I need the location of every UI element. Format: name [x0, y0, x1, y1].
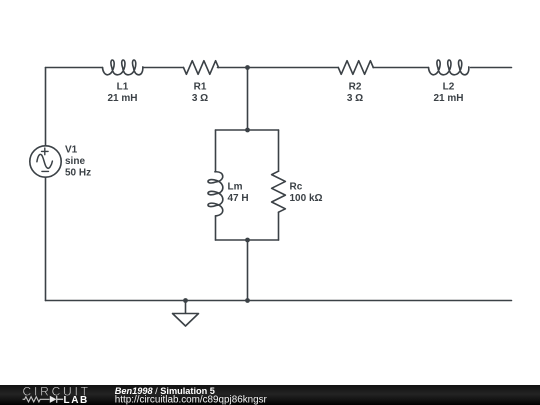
- svg-text:47 H: 47 H: [228, 193, 249, 204]
- svg-text:V1: V1: [65, 144, 78, 155]
- wire left vertical lower (from V1): [45, 177, 47, 300]
- wire left branch upper lead: [215, 130, 217, 171]
- wire right branch upper lead: [278, 130, 280, 171]
- node dot at ground symbol: [183, 298, 188, 303]
- wire parallel box bottom bar: [216, 239, 279, 241]
- svg-text:3 Ω: 3 Ω: [347, 93, 363, 104]
- resistor R1: [184, 61, 219, 75]
- wire between L1 and R1: [144, 67, 184, 69]
- wire box bottom to ground rail: [247, 240, 249, 301]
- svg-text:100 kΩ: 100 kΩ: [290, 193, 323, 204]
- node dot at ground rail junction: [245, 298, 250, 303]
- svg-text:Lm: Lm: [228, 182, 243, 193]
- wire top-left segment: [46, 67, 103, 69]
- logo resistor squiggle: [23, 397, 50, 402]
- wire left branch lower lead: [215, 216, 217, 240]
- resistor Rc: [272, 171, 286, 212]
- svg-text:sine: sine: [65, 156, 85, 167]
- wire left vertical upper (to V1): [45, 68, 47, 146]
- ground symbol: [173, 301, 199, 327]
- wire right branch lower lead: [278, 212, 280, 240]
- svg-text:R1: R1: [194, 82, 207, 93]
- node dot at box top: [245, 128, 250, 133]
- node dot at box bottom: [245, 238, 250, 243]
- svg-text:21 mH: 21 mH: [433, 93, 463, 104]
- V1 sine wave: [37, 154, 53, 168]
- svg-text:R2: R2: [349, 82, 362, 93]
- V1 minus sign: [42, 170, 49, 172]
- resistor R2: [338, 61, 373, 75]
- inductor Lm: [208, 172, 223, 216]
- wire between R1 and R2 (through node): [218, 67, 339, 69]
- node dot at R1/R2 junction: [245, 65, 250, 70]
- wire bottom rail: [46, 300, 512, 302]
- svg-text:L1: L1: [117, 82, 129, 93]
- svg-text:http://circuitlab.com/c89qpj86: http://circuitlab.com/c89qpj86kngsr: [115, 395, 268, 405]
- svg-text:LAB: LAB: [64, 395, 89, 405]
- svg-text:50 Hz: 50 Hz: [65, 168, 91, 179]
- wire parallel box top bar: [216, 129, 279, 131]
- wire right of L2: [471, 67, 512, 69]
- svg-text:L2: L2: [443, 82, 455, 93]
- V1 plus sign: [42, 148, 49, 155]
- svg-text:Rc: Rc: [290, 182, 303, 193]
- inductor L1: [103, 60, 143, 75]
- wire node to parallel box top: [247, 68, 249, 131]
- inductor L2: [429, 60, 469, 75]
- svg-text:21 mH: 21 mH: [107, 93, 137, 104]
- voltage source V1 circle: [30, 146, 61, 177]
- logo diode symbol: [50, 396, 57, 403]
- wire between R2 and L2: [373, 67, 428, 69]
- svg-text:3 Ω: 3 Ω: [192, 93, 208, 104]
- footer bar: [0, 385, 540, 405]
